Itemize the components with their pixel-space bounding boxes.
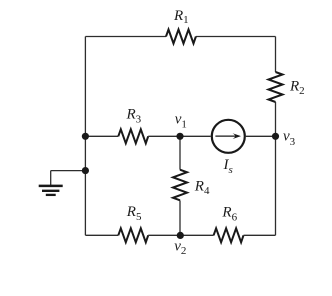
resistor R1 [166,30,196,44]
wire v1 to R4 [179,136,181,169]
node v2 [177,232,184,239]
svg-text:R6: R6 [221,204,237,223]
wire middle rail R3 to current source [148,135,211,137]
resistor R5 [118,228,148,242]
node at ground junction [82,167,89,174]
wire bottom rail R5 to R6 [148,234,213,236]
resistor R4 [173,170,187,201]
wire middle rail left of R3 [85,135,118,137]
svg-text:Is: Is [223,157,233,176]
node v1 [176,133,183,140]
node at left-middle junction [82,133,89,140]
svg-text:v1: v1 [175,112,187,131]
wire bottom rail right of R6 [244,234,276,236]
wire R4 to v2 [179,200,181,235]
wire top rail left of R1 [85,36,166,38]
wire left rail [84,37,86,236]
wire top rail right of R1 [196,36,276,38]
resistor R6 [214,228,244,242]
wire right rail below R2 [275,102,277,235]
resistor R2 [269,72,283,102]
svg-text:R2: R2 [289,78,305,97]
resistor R3 [118,129,148,143]
svg-text:R5: R5 [126,204,142,223]
svg-text:v2: v2 [174,239,186,258]
wire bottom rail left of R5 [85,234,118,236]
wire middle rail right of source [245,135,276,137]
svg-text:R4: R4 [194,178,210,197]
svg-text:R1: R1 [173,8,189,26]
node v3 [272,133,279,140]
ground [39,186,63,195]
svg-text:R3: R3 [126,106,142,125]
svg-text:v3: v3 [283,128,296,148]
wire ground stem [50,171,52,185]
wire ground horizontal [51,170,86,172]
current source Is [212,120,245,153]
wire right rail above R2 [275,37,277,73]
